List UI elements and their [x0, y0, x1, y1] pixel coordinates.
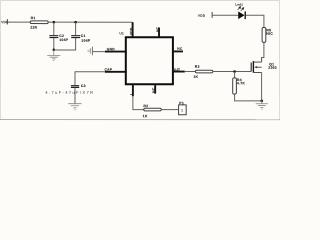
- Q1 source lead: [261, 72, 263, 100]
- LED Led1: [235, 3, 245, 20]
- wire LED to R5: [246, 15, 264, 27]
- ground (under C2): [47, 50, 60, 61]
- pin NC (bottom): [154, 84, 156, 94]
- wire GND pin to ground: [93, 51, 105, 53]
- svg-text:22R: 22R: [30, 26, 37, 30]
- wire R5 to Q1 drain: [262, 42, 264, 62]
- port VDD (top right): [198, 12, 212, 18]
- transistor Q1: [251, 61, 261, 73]
- wire C1 upper stem: [75, 22, 77, 35]
- svg-text:4.7K: 4.7K: [237, 81, 245, 85]
- pin I (bottom): [132, 84, 134, 96]
- svg-text:I: I: [129, 94, 133, 95]
- svg-text:1K: 1K: [193, 75, 198, 79]
- svg-text:C3: C3: [81, 84, 86, 88]
- IC U1 body: [126, 37, 173, 84]
- svg-text:GND: GND: [107, 47, 115, 51]
- svg-text:N/C: N/C: [266, 32, 273, 36]
- node: junction dot C2/C1 bottom: [53, 48, 56, 51]
- Q1 drain lead: [261, 57, 263, 62]
- pin NC (top): [158, 28, 160, 37]
- connector P1: [179, 101, 187, 115]
- wire VDD port to LED: [213, 14, 239, 16]
- wire OUT pin to R3: [185, 71, 196, 73]
- resistor R5: [262, 27, 273, 42]
- capacitor C3: [71, 84, 86, 88]
- ground (sideways, at GND pin): [87, 47, 92, 56]
- svg-text:104P: 104P: [59, 38, 68, 42]
- resistor R2: [143, 104, 162, 118]
- pin CAP (left): [105, 71, 127, 73]
- wire C3 to ground: [74, 88, 76, 104]
- node: junction dot at Q1 source/ground: [260, 100, 263, 103]
- svg-text:VDD: VDD: [198, 14, 206, 18]
- wire C2 upper stem: [53, 22, 55, 35]
- svg-text:2302: 2302: [268, 66, 277, 70]
- svg-text:R1: R1: [31, 16, 36, 20]
- wire C2 bottom to C1 bottom: [54, 38, 76, 50]
- svg-text:VDD: VDD: [129, 27, 133, 35]
- svg-text:NC: NC: [177, 47, 183, 51]
- svg-text:OUT: OUT: [173, 68, 181, 72]
- resistor R1: [30, 16, 48, 30]
- pin VDD (top): [132, 22, 134, 37]
- wire C2 lower stem: [53, 38, 55, 50]
- pin NC (right): [172, 50, 183, 52]
- ground (under C3): [68, 104, 81, 110]
- svg-text:P1: P1: [179, 101, 184, 105]
- wire R3 to Q1 gate: [213, 71, 251, 73]
- port VDD (left): [1, 19, 9, 24]
- wire R1 to U1 VDD pin: [48, 21, 132, 23]
- wire R2 to P1: [161, 109, 178, 111]
- svg-text:CAP: CAP: [104, 68, 112, 72]
- wire junction to R4: [234, 72, 236, 78]
- node: junction dot at C1 tap: [74, 21, 77, 24]
- frame border: [0, 0, 279, 120]
- wire I pin to R2: [133, 96, 144, 109]
- svg-text:Led1: Led1: [235, 3, 243, 7]
- svg-text:NC: NC: [156, 26, 160, 32]
- Q1 arrow: [254, 66, 257, 68]
- svg-text:104P: 104P: [81, 39, 90, 43]
- LED arrows: [238, 7, 244, 11]
- capacitor C2: [49, 34, 68, 42]
- node: junction dot at R4 tap: [233, 70, 236, 73]
- pin GND (left): [105, 51, 127, 53]
- ground (at Q1 source): [256, 101, 268, 109]
- wire R4 bottom to source node: [235, 94, 262, 101]
- svg-text:1: 1: [181, 108, 183, 112]
- svg-text:C1: C1: [81, 34, 86, 38]
- svg-text:1K: 1K: [143, 114, 148, 118]
- svg-text:R3: R3: [195, 65, 200, 69]
- svg-text:R2: R2: [143, 104, 148, 108]
- node: junction dot at C2 tap: [53, 21, 56, 24]
- svg-text:U1: U1: [119, 31, 124, 35]
- wire VDD port to R1: [8, 21, 30, 23]
- wire CAP pin to C3: [75, 72, 105, 86]
- svg-text:4.7uF-47uF/X7R: 4.7uF-47uF/X7R: [45, 90, 94, 95]
- capacitor C1: [71, 34, 91, 43]
- pin OUT (right): [172, 71, 185, 73]
- svg-text:NC: NC: [152, 87, 156, 93]
- resistor R4: [233, 78, 246, 94]
- resistor R3: [193, 65, 213, 79]
